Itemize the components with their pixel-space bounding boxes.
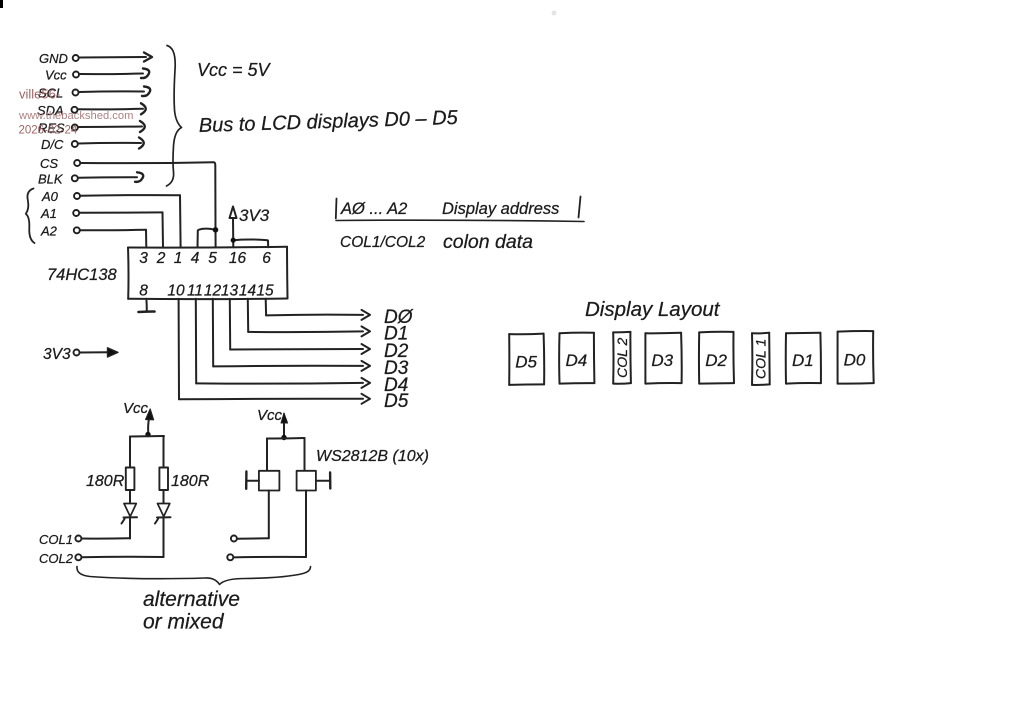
pin 4	[191, 250, 200, 267]
display box COL 1	[752, 333, 770, 385]
svg-text:Display Layout: Display Layout	[585, 298, 721, 321]
label 3V3 at pin16	[239, 206, 270, 225]
wire CS to pins 4,5	[81, 162, 216, 247]
label Display Layout	[585, 298, 721, 321]
display box D1	[786, 333, 821, 384]
watermark line3	[19, 125, 78, 137]
wire pin to D2	[230, 299, 370, 354]
wire RES with arrow	[78, 121, 144, 132]
display box D4	[559, 333, 594, 384]
node A0 terminal	[74, 193, 80, 199]
WS2812B LED2	[297, 471, 331, 491]
label A2	[40, 223, 58, 238]
svg-text:BLK: BLK	[38, 171, 64, 186]
junction Vcc WS2812B	[281, 435, 286, 440]
svg-text:180R: 180R	[171, 473, 210, 490]
wire Vcc with arrow	[80, 69, 150, 79]
wire WS2812B LED2 to COL2b	[234, 491, 307, 558]
junction Vcc left	[145, 432, 150, 437]
node SDA terminal	[72, 107, 78, 113]
wire WS2812B LED1 to COL1b	[237, 491, 269, 539]
junction CS/pin5	[213, 227, 219, 233]
svg-text:WS2812B (10x): WS2812B (10x)	[316, 448, 429, 465]
wire A1 to pin 2	[80, 212, 164, 247]
junction 3V3/pin16	[231, 238, 236, 243]
smudge	[552, 11, 557, 16]
label BLK	[38, 171, 64, 186]
IC U1 74HC138 body	[128, 247, 288, 299]
svg-text:14: 14	[239, 283, 257, 300]
svg-text:16: 16	[229, 250, 247, 267]
node COL1 terminal	[75, 536, 81, 542]
wire COL2	[82, 556, 164, 558]
label D/C	[41, 137, 64, 152]
svg-text:COL1: COL1	[39, 532, 73, 547]
label D5	[384, 391, 409, 412]
pin 2	[156, 250, 166, 267]
label COL2	[39, 551, 74, 566]
svg-text:COL 1: COL 1	[753, 339, 769, 379]
svg-text:D2: D2	[705, 351, 727, 370]
wire SDA with arrow	[78, 103, 146, 114]
label D2	[384, 341, 409, 362]
pin 1	[174, 250, 183, 267]
svg-text:COL2: COL2	[39, 551, 74, 566]
svg-text:GND: GND	[39, 51, 68, 66]
label A0 ... A2 Display address	[340, 200, 559, 218]
svg-text:10: 10	[167, 283, 185, 300]
label Vcc	[45, 68, 67, 83]
svg-text:3: 3	[139, 250, 148, 267]
pin 8	[139, 283, 148, 300]
node SCL terminal	[73, 90, 79, 96]
power Vcc arrow left LED circuit	[123, 400, 154, 434]
svg-text:D1: D1	[792, 351, 814, 370]
display box D2	[699, 332, 734, 384]
label RES	[38, 121, 65, 136]
svg-text:12: 12	[204, 283, 222, 300]
wire SCL with arrow	[79, 87, 150, 97]
node Vcc terminal	[73, 72, 79, 78]
node GND terminal	[73, 55, 79, 61]
wire BLK with arrow	[78, 172, 143, 182]
label D0	[384, 307, 414, 328]
svg-text:or mixed: or mixed	[143, 611, 225, 634]
svg-text:3V3: 3V3	[43, 346, 71, 363]
label R1 180R	[86, 473, 125, 490]
svg-text:A1: A1	[40, 206, 57, 221]
svg-text:5: 5	[208, 250, 217, 267]
svg-text:A0: A0	[41, 189, 59, 204]
brace bus group	[167, 46, 182, 187]
wire Vcc rail left circuit	[130, 436, 164, 468]
label SCL	[38, 86, 63, 101]
label WS2812B (10x)	[316, 448, 429, 465]
svg-text:D/C: D/C	[41, 137, 64, 152]
label SDA	[37, 103, 64, 118]
wire pin to D4	[196, 299, 370, 388]
table border left	[335, 199, 338, 219]
pin 14	[239, 283, 257, 300]
node D/C terminal	[72, 141, 78, 147]
display box D5	[509, 334, 544, 385]
wire pin to D3	[213, 299, 370, 371]
display box COL 2	[613, 332, 631, 384]
brace A0..A2 group	[26, 189, 35, 244]
svg-text:Bus to LCD displays D0 – D5: Bus to LCD displays D0 – D5	[198, 107, 458, 137]
svg-text:D0: D0	[844, 350, 866, 369]
wire COL1	[82, 537, 131, 539]
svg-text:COL1/COL2: COL1/COL2	[340, 234, 426, 251]
label D3	[384, 358, 409, 379]
label GND	[39, 51, 68, 66]
wire pin to D5	[179, 299, 370, 404]
svg-text:COL 2: COL 2	[614, 337, 630, 377]
table border right	[579, 197, 581, 218]
svg-text:colon data: colon data	[443, 231, 533, 253]
svg-text:11: 11	[187, 283, 203, 300]
wire 3V3 arrow	[80, 348, 118, 357]
wire Vcc rail WS2812B	[267, 438, 305, 471]
svg-text:D5: D5	[515, 352, 537, 371]
label Bus to LCD displays D0 - D5	[198, 107, 458, 137]
node COL2b terminal	[227, 554, 233, 560]
node COL2 terminal	[75, 554, 81, 560]
svg-text:D5: D5	[384, 391, 409, 412]
table underline	[336, 220, 584, 221]
svg-text:15: 15	[256, 283, 274, 300]
svg-text:180R: 180R	[86, 473, 125, 490]
node BLK terminal	[72, 175, 78, 181]
label 3V3 left	[43, 346, 71, 363]
pin 10	[167, 283, 185, 300]
svg-text:2026-02-24: 2026-02-24	[19, 125, 78, 137]
power Vcc arrow WS2812B	[257, 407, 288, 437]
label D1	[384, 323, 408, 344]
svg-text:1: 1	[174, 250, 183, 267]
node A1 terminal	[73, 210, 79, 216]
label alternative	[143, 588, 240, 611]
svg-text:2: 2	[156, 250, 166, 267]
brace alternative group	[77, 567, 311, 585]
pin 16	[229, 250, 247, 267]
wire GND with arrow	[79, 53, 152, 62]
pin 12	[204, 283, 222, 300]
svg-text:D4: D4	[566, 351, 588, 370]
svg-text:A2: A2	[40, 223, 58, 238]
label CS	[40, 156, 58, 171]
led D_COL1	[122, 490, 138, 539]
pin 13	[221, 283, 239, 300]
svg-text:AØ ... A2: AØ ... A2	[340, 200, 407, 218]
pin 3	[139, 250, 148, 267]
resistor R1 180R	[126, 468, 135, 491]
svg-text:Vcc: Vcc	[257, 407, 283, 424]
label COL1	[39, 532, 73, 547]
svg-text:3V3: 3V3	[239, 206, 270, 225]
svg-text:ville56-: ville56-	[19, 87, 60, 102]
svg-text:Vcc: Vcc	[123, 400, 149, 417]
wire pin to D1	[248, 299, 370, 337]
svg-text:Display address: Display address	[442, 200, 559, 218]
label R2 180R	[171, 473, 210, 490]
scan corner mark	[0, 0, 3, 8]
label D4	[384, 375, 408, 396]
ground at pin 8	[139, 299, 155, 312]
wire D/C with arrow	[78, 138, 143, 149]
wire A0 to pin 1	[81, 195, 181, 247]
watermark line2	[18, 110, 133, 122]
svg-text:4: 4	[191, 250, 200, 267]
svg-text:6: 6	[262, 250, 271, 267]
pin 11	[187, 283, 203, 300]
display box D3	[645, 333, 681, 384]
node COL1b terminal	[231, 536, 237, 542]
label COL1/COL2 colon data	[340, 231, 533, 253]
node CS terminal	[74, 160, 80, 166]
svg-text:www.thebackshed.com: www.thebackshed.com	[18, 110, 133, 122]
label A1	[40, 206, 57, 221]
label Vcc = 5V	[197, 60, 272, 80]
power 3V3 terminal left	[74, 350, 80, 356]
WS2812B LED1	[246, 471, 279, 491]
label A0	[41, 189, 59, 204]
pin 6	[262, 250, 271, 267]
label or mixed	[143, 611, 225, 634]
node A2 terminal	[74, 227, 80, 233]
led D_COL2	[155, 490, 171, 557]
svg-text:74HC138: 74HC138	[47, 266, 118, 284]
node RES terminal	[72, 125, 78, 131]
wire pin to D0	[266, 299, 370, 320]
pin 5	[208, 250, 217, 267]
svg-text:8: 8	[139, 283, 148, 300]
wire A2 to pin 3	[80, 230, 146, 248]
power 3V3 arrow at pin 16	[230, 207, 269, 248]
label 74HC138	[47, 266, 118, 284]
svg-text:CS: CS	[40, 156, 58, 171]
watermark line1	[19, 87, 60, 102]
svg-text:Vcc: Vcc	[45, 68, 67, 83]
display box D0	[838, 331, 874, 384]
svg-text:D3: D3	[651, 351, 673, 370]
svg-text:Vcc = 5V: Vcc = 5V	[197, 60, 272, 80]
resistor R2 180R	[159, 468, 168, 491]
svg-text:alternative: alternative	[143, 588, 240, 611]
pin 15	[256, 283, 274, 300]
svg-text:13: 13	[221, 283, 239, 300]
